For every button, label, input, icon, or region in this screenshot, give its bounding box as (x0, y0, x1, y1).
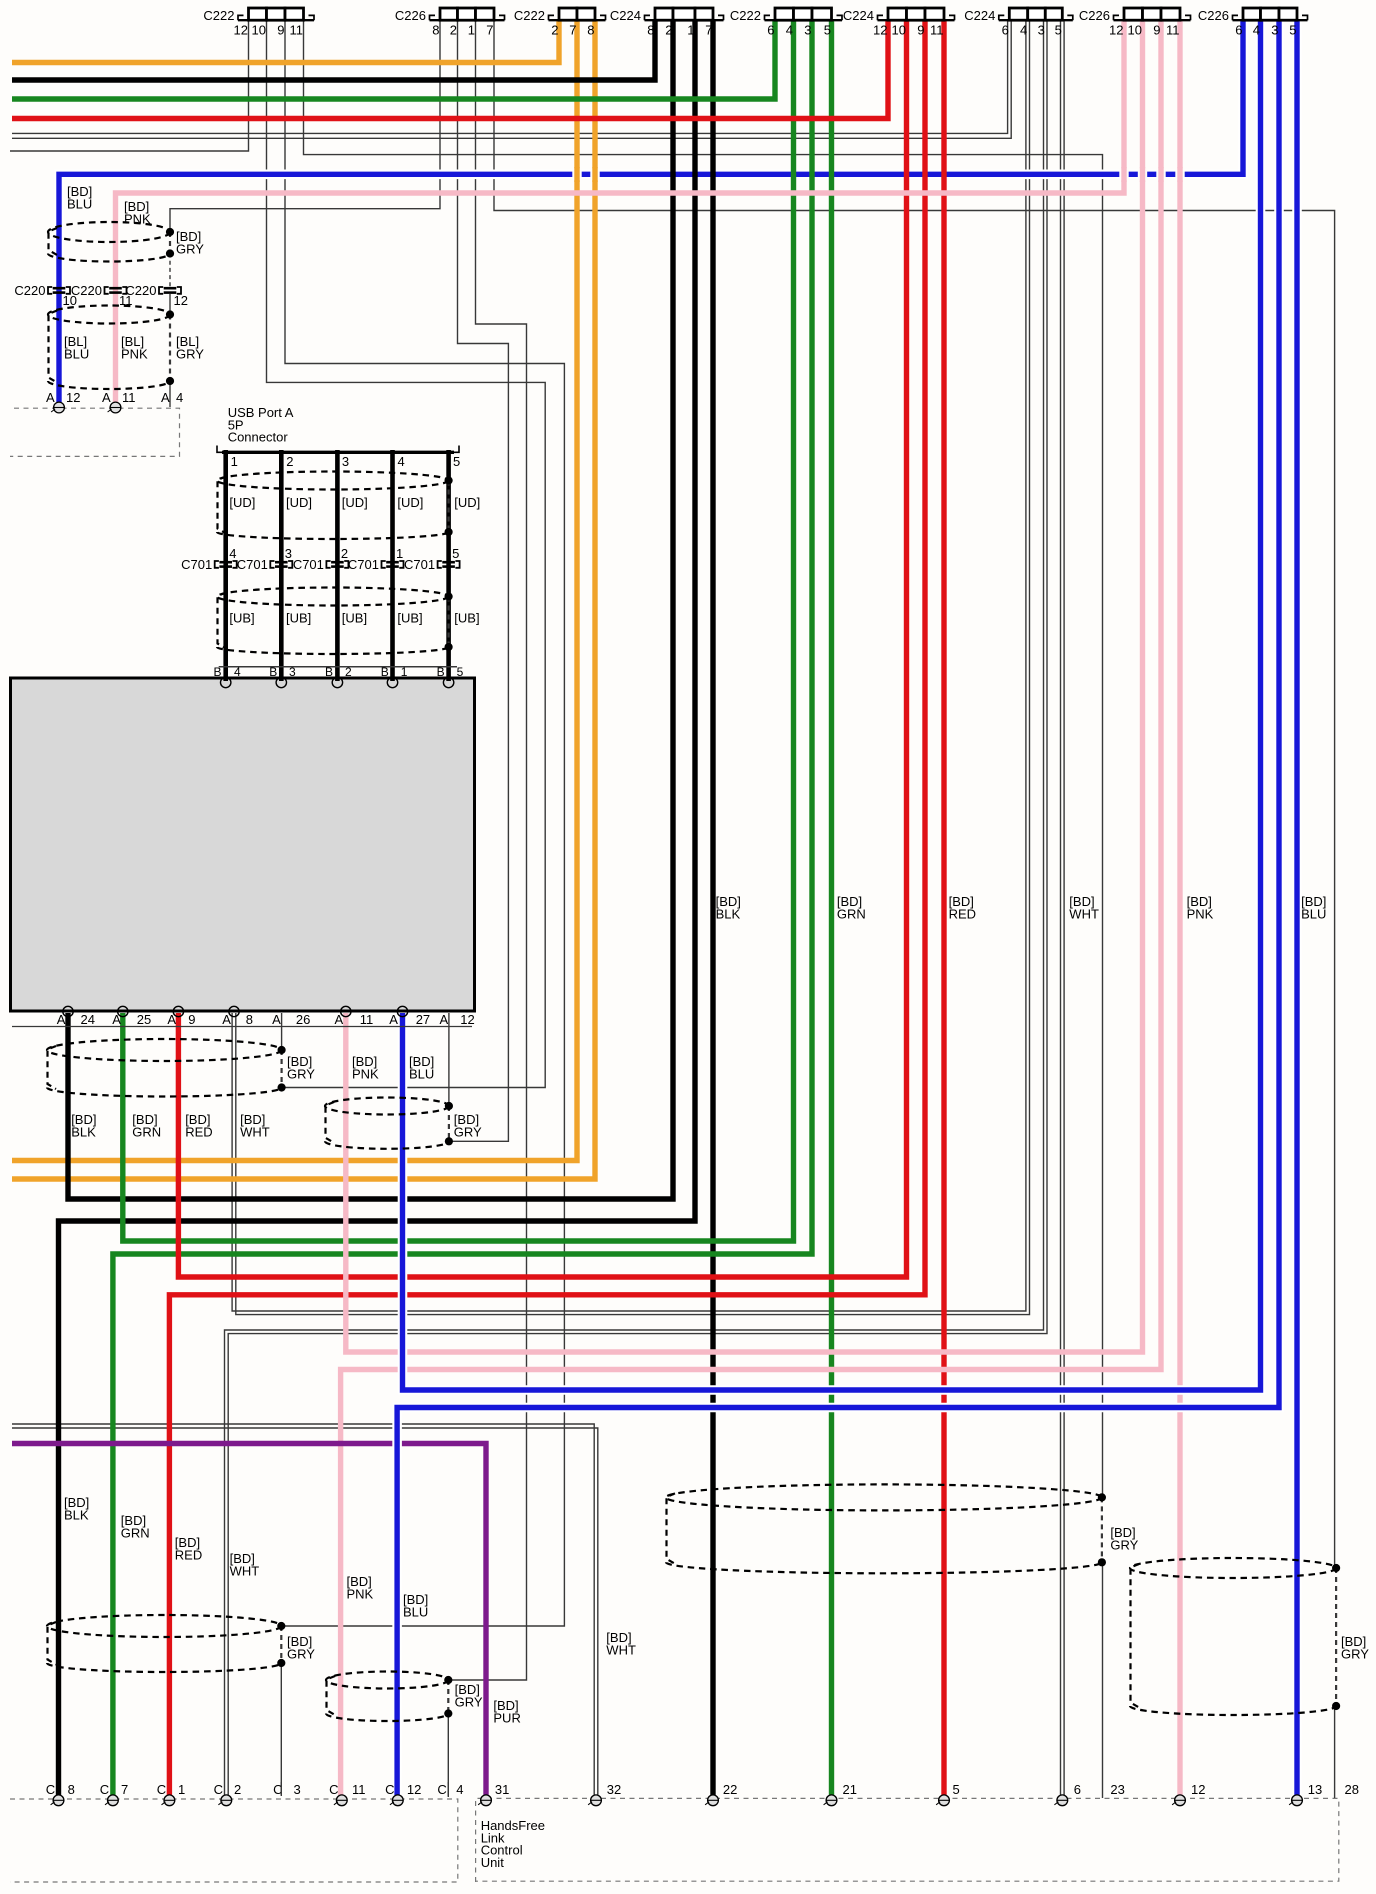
terminal circle 21 (826, 1795, 837, 1806)
svg-text:6: 6 (1074, 1782, 1081, 1797)
wire pair C224 pin3 to terminal C2 [BD] WHT (225, 20, 1044, 1795)
svg-text:C701: C701 (293, 557, 324, 572)
svg-text:27: 27 (416, 1012, 430, 1027)
wire [BD] PNK C226 pin12 to connector A11 (116, 20, 1125, 406)
connector C224 (pins 6,4,3,5) (999, 19, 1073, 21)
USB Port A pin 1 conductor (223, 450, 228, 681)
connector terminal circle A12 (54, 402, 65, 413)
svg-text:11: 11 (352, 1782, 366, 1797)
svg-text:C226: C226 (1198, 8, 1229, 23)
svg-text:BLU: BLU (403, 1604, 428, 1619)
svg-text:11: 11 (290, 23, 304, 38)
svg-text:RED: RED (175, 1547, 202, 1562)
svg-text:1: 1 (396, 546, 403, 561)
stub pin C3 (280, 1782, 282, 1796)
shield symbol [BL] cable (C220 side) (48, 306, 170, 324)
connector C701 pin 4 (219, 561, 232, 564)
svg-text:PNK: PNK (124, 211, 151, 226)
terminal circle C8 (53, 1795, 64, 1806)
wire C226 pin7 to terminal 28 (494, 20, 1335, 1568)
connector C226 (pins 8,2,1,7) (430, 19, 505, 21)
stub pin C4 (447, 1782, 449, 1796)
svg-text:[UD]: [UD] (454, 495, 480, 510)
shield symbol lower-middle C11-C12 bundle (326, 1672, 448, 1689)
svg-text:7: 7 (569, 23, 576, 38)
svg-text:13: 13 (1308, 1782, 1322, 1797)
svg-text:9: 9 (917, 23, 924, 38)
svg-text:4: 4 (176, 390, 183, 405)
wire [BD] ORN C222 pin7 to left edge (12, 20, 577, 1161)
svg-text:12: 12 (407, 1782, 421, 1797)
svg-text:3: 3 (804, 23, 811, 38)
svg-text:12: 12 (1109, 23, 1123, 38)
USB Port A pin 3 conductor (335, 450, 340, 681)
wire C222 pin12 to left edge (10, 20, 249, 151)
svg-text:6: 6 (1235, 23, 1242, 38)
svg-text:[UD]: [UD] (286, 495, 312, 510)
wire pair terminal 32 to left edge [BD] WHT (12, 1424, 594, 1795)
svg-text:4: 4 (234, 665, 241, 679)
svg-text:1: 1 (231, 454, 238, 469)
wire [BD] BLU C226 pin6 to connector A12 (59, 20, 1243, 406)
svg-text:C224: C224 (610, 8, 641, 23)
svg-text:4: 4 (456, 1782, 463, 1797)
wire [BD] BLK C224 pin1 to terminal C8 (59, 20, 696, 1795)
svg-text:C: C (46, 1782, 55, 1797)
wire pair C224 pin5 to terminal 6 [BD] WHT (1060, 20, 1062, 1795)
svg-text:GRN: GRN (132, 1124, 161, 1139)
svg-text:C226: C226 (395, 8, 426, 23)
wire [BD] PNK C226 pin11 to terminal 12 (1177, 20, 1182, 1795)
svg-text:BLK: BLK (716, 906, 741, 921)
shield symbol [UD] USB data pair (217, 472, 449, 490)
svg-text:1: 1 (178, 1782, 185, 1797)
wire [BD] ORN C222 pin8 to left edge (12, 20, 595, 1179)
wire [BD] BLK C224 pin2 to unit pin A24 (68, 20, 673, 1199)
svg-text:23: 23 (1110, 1782, 1124, 1797)
connector terminal circle A11 (110, 402, 121, 413)
svg-text:9: 9 (277, 23, 284, 38)
svg-text:6: 6 (1002, 23, 1009, 38)
svg-text:6: 6 (767, 23, 774, 38)
svg-text:RED: RED (949, 906, 976, 921)
svg-text:A: A (57, 1012, 66, 1027)
svg-text:BLU: BLU (1301, 906, 1326, 921)
wire terminal 28 lower segment (1334, 1706, 1336, 1798)
svg-text:24: 24 (81, 1012, 95, 1027)
svg-text:PNK: PNK (352, 1066, 379, 1081)
svg-text:11: 11 (122, 390, 136, 405)
junction dot shield GRY upper (166, 228, 174, 236)
svg-text:C701: C701 (237, 557, 268, 572)
svg-text:C222: C222 (203, 8, 234, 23)
connector C222 (pins 12,10,9,11) (238, 19, 314, 21)
svg-text:A: A (272, 1012, 281, 1027)
svg-text:2: 2 (450, 23, 457, 38)
wire pair C224 pin4 to unit pin A8 [BD] WHT (232, 20, 1026, 1311)
wire [BD] BLU C226 pin4 to unit pin A27 (403, 20, 1261, 1390)
svg-text:GRY: GRY (176, 346, 204, 361)
svg-text:3: 3 (1038, 23, 1045, 38)
terminal circle 22 (708, 1795, 719, 1806)
dashed boundary of HandsFree Link Control Unit (476, 1798, 1339, 1882)
svg-text:12: 12 (174, 293, 188, 308)
shield symbol lower-right 22-6 bundle (666, 1484, 1102, 1510)
svg-text:C222: C222 (514, 8, 545, 23)
wire C226 pin2 to shield dot A12 (451, 20, 508, 1141)
svg-text:BLK: BLK (64, 1507, 89, 1522)
svg-text:[UD]: [UD] (229, 495, 255, 510)
svg-text:BLU: BLU (409, 1066, 434, 1081)
connector C701 pin 2 (331, 561, 344, 564)
wire unit pin A12 shield drain (448, 1013, 450, 1106)
terminal circle 32 (591, 1795, 602, 1806)
svg-text:4: 4 (229, 546, 236, 561)
wire C226 pin1 to lower-middle shield dot (451, 20, 527, 1680)
svg-text:8: 8 (587, 23, 594, 38)
svg-text:4: 4 (786, 23, 793, 38)
svg-text:GRY: GRY (1110, 1537, 1138, 1552)
svg-text:[UB]: [UB] (286, 611, 311, 626)
svg-text:21: 21 (843, 1782, 857, 1797)
svg-text:A: A (102, 390, 111, 405)
USB Port A pin 5 conductor (446, 450, 451, 681)
svg-text:3: 3 (289, 665, 296, 679)
wire shield drain to terminal C4 (447, 1714, 449, 1798)
wire [BD] PUR left edge to terminal 31 (12, 1444, 486, 1796)
svg-text:1: 1 (687, 23, 694, 38)
svg-text:3: 3 (1271, 23, 1278, 38)
svg-text:2: 2 (665, 23, 672, 38)
svg-text:26: 26 (296, 1012, 310, 1027)
svg-text:7: 7 (486, 23, 493, 38)
svg-text:4: 4 (1253, 23, 1260, 38)
junction dot UB pair (445, 592, 453, 600)
USB Port A pin 4 conductor (390, 450, 395, 681)
svg-text:GRY: GRY (176, 241, 204, 256)
svg-text:A: A (161, 390, 170, 405)
svg-text:8: 8 (68, 1782, 75, 1797)
svg-text:A: A (46, 390, 55, 405)
svg-text:C: C (157, 1782, 166, 1797)
svg-text:GRY: GRY (455, 1694, 483, 1709)
svg-text:22: 22 (723, 1782, 737, 1797)
svg-text:9: 9 (188, 1012, 195, 1027)
svg-text:2: 2 (551, 23, 558, 38)
svg-text:9: 9 (1153, 23, 1160, 38)
svg-text:GRY: GRY (287, 1646, 315, 1661)
svg-text:5: 5 (453, 454, 460, 469)
svg-text:2: 2 (345, 665, 352, 679)
wire [BD] GRN C222 pin4 to unit pin A25 (123, 20, 794, 1241)
wire crossing gaps on blue run (572, 168, 581, 180)
wire [BD] BLU C226 pin5 to terminal 13 (1292, 20, 1302, 1795)
wire [BD] BLK C224 pin7 to terminal 22 (710, 20, 715, 1795)
terminal circle 31 (481, 1795, 492, 1806)
wire [BD] BLK C224 pin8 to left edge (12, 20, 655, 80)
svg-text:2: 2 (234, 1782, 241, 1797)
wire [BD] RED C224 pin9 to terminal C1 (169, 20, 925, 1795)
svg-text:GRN: GRN (121, 1525, 150, 1540)
connector C701 pin 3 (275, 561, 288, 564)
wire C222 pin11 to terminal 23 (304, 20, 1103, 1497)
unit A-pin row bar (12, 1026, 472, 1028)
connector C701 pin 5 (442, 561, 455, 564)
terminal circle C1 (164, 1795, 175, 1806)
connector C220 pin10 (53, 287, 66, 290)
wire [BD] RED C224 pin11 to terminal 5 (941, 20, 946, 1795)
terminal circle C2 (221, 1795, 232, 1806)
svg-text:PNK: PNK (121, 346, 148, 361)
svg-text:8: 8 (432, 23, 439, 38)
connector C224 (pins 12,10,9,11) (878, 19, 955, 21)
junction dot shield A12 (445, 1102, 453, 1110)
unit socket circles B4-B5 (221, 677, 231, 687)
svg-text:[UB]: [UB] (454, 611, 479, 626)
svg-text:8: 8 (246, 1012, 253, 1027)
svg-text:Connector: Connector (228, 430, 289, 445)
svg-text:11: 11 (930, 23, 944, 38)
svg-text:PNK: PNK (1187, 906, 1214, 921)
shield symbol [UB] USB data pair (217, 588, 449, 606)
terminal circle 13 (1292, 1795, 1303, 1806)
unit socket circles A24-A27 (63, 1006, 73, 1016)
shield symbol [BD] GRY upper-left twisted pair (48, 222, 170, 242)
svg-text:A: A (389, 1012, 398, 1027)
svg-text:C226: C226 (1079, 8, 1110, 23)
USB hub control unit (gray box) (11, 678, 475, 1011)
svg-text:WHT: WHT (240, 1124, 270, 1139)
wire shield drain to terminal C3 (280, 1663, 282, 1795)
svg-text:B: B (214, 665, 222, 679)
svg-text:GRN: GRN (837, 906, 866, 921)
connector C226 (pins 12,10,9,11) (1114, 19, 1191, 21)
svg-text:7: 7 (705, 23, 712, 38)
junction dot shield C3 (277, 1622, 285, 1630)
svg-text:C701: C701 (181, 557, 212, 572)
svg-text:RED: RED (185, 1124, 212, 1139)
connector C226 (pins 6,4,3,5) (1233, 19, 1308, 21)
svg-text:[UB]: [UB] (342, 611, 367, 626)
junction dot shield 23 (1098, 1493, 1106, 1501)
shield symbol lower-right 12-13 bundle (1130, 1558, 1336, 1578)
wire [BD] GRN C222 pin6 to left edge (12, 20, 775, 99)
svg-text:28: 28 (1345, 1782, 1359, 1797)
svg-text:3: 3 (294, 1782, 301, 1797)
svg-text:WHT: WHT (230, 1563, 260, 1578)
wire [BL] GRY pin lead above C220 (169, 254, 171, 288)
svg-text:5: 5 (1055, 23, 1062, 38)
svg-text:A: A (222, 1012, 231, 1027)
svg-text:A: A (112, 1012, 121, 1027)
junction dot shield A26 (278, 1046, 286, 1054)
dashed boundary of lower-left unit (10, 1799, 458, 1882)
svg-text:5: 5 (452, 546, 459, 561)
terminal circle C11 (336, 1795, 347, 1806)
svg-text:[UB]: [UB] (397, 611, 422, 626)
svg-text:PUR: PUR (493, 1710, 520, 1725)
svg-text:10: 10 (892, 23, 906, 38)
wire terminal 23 lower segment (1102, 1562, 1104, 1798)
connector C220 pin11 (109, 287, 122, 290)
wire [BD] PNK C226 pin10 to unit pin A11 (346, 20, 1143, 1352)
svg-text:4: 4 (398, 454, 405, 469)
svg-text:C701: C701 (404, 557, 435, 572)
svg-text:BLU: BLU (67, 196, 92, 211)
wire [BL] GRY pin lead below C220 (169, 294, 171, 315)
svg-text:Unit: Unit (481, 1855, 505, 1870)
svg-text:12: 12 (460, 1012, 474, 1027)
wire C222 pin10 to shield drain dot A26 (267, 20, 546, 1088)
svg-text:12: 12 (234, 23, 248, 38)
svg-text:32: 32 (607, 1782, 621, 1797)
svg-text:C222: C222 (730, 8, 761, 23)
svg-text:A: A (335, 1012, 344, 1027)
svg-text:C224: C224 (843, 8, 874, 23)
wire pair C224 pin6 to left edge [BD] WHT (12, 20, 1008, 133)
svg-text:10: 10 (1128, 23, 1142, 38)
wire [BD] RED C224 pin12 to left edge (12, 20, 888, 119)
svg-text:WHT: WHT (606, 1642, 636, 1657)
wire C222 pin9 to lower-left shield dot (284, 20, 564, 1626)
svg-text:10: 10 (252, 23, 266, 38)
junction dot shield 28 (1332, 1564, 1340, 1572)
wire [BD] GRN C222 pin5 to terminal 21 (829, 20, 834, 1795)
wire [BD] BLU C226 pin3 to terminal C12 (397, 20, 1279, 1795)
svg-text:11: 11 (360, 1012, 374, 1027)
svg-text:C220: C220 (125, 283, 156, 298)
terminal circle 5 (939, 1795, 950, 1806)
dashed boundary of upper-left unit (C220 side) (10, 408, 180, 456)
svg-text:C220: C220 (14, 283, 45, 298)
svg-text:[UB]: [UB] (229, 611, 254, 626)
svg-text:7: 7 (121, 1782, 128, 1797)
svg-text:1: 1 (401, 665, 408, 679)
svg-text:B: B (437, 665, 445, 679)
svg-text:C220: C220 (71, 283, 102, 298)
wire [BD] RED C224 pin10 to unit pin A9 (178, 20, 906, 1277)
svg-text:12: 12 (66, 390, 80, 405)
terminal circle C7 (108, 1795, 119, 1806)
svg-text:B: B (325, 665, 333, 679)
svg-text:3: 3 (285, 546, 292, 561)
svg-text:C: C (100, 1782, 109, 1797)
wire [BD] PNK C226 pin9 to terminal C11 (341, 20, 1161, 1795)
connector C222 (pins 2,7,8) (549, 19, 606, 21)
terminal circle 6 (1057, 1795, 1068, 1806)
svg-text:WHT: WHT (1069, 906, 1099, 921)
junction dot shield C4 (444, 1676, 452, 1684)
svg-text:2: 2 (286, 454, 293, 469)
svg-text:5: 5 (1289, 23, 1296, 38)
svg-text:PNK: PNK (347, 1586, 374, 1601)
svg-text:A: A (440, 1012, 449, 1027)
svg-text:12: 12 (873, 23, 887, 38)
shield symbol lower-left C8-C2 bundle (47, 1615, 281, 1637)
connector C220 pin12 (164, 287, 177, 290)
svg-text:GRY: GRY (454, 1124, 482, 1139)
terminal circle 12 (1175, 1795, 1186, 1806)
connector C222 (pins 6,4,3,5) (765, 19, 843, 21)
junction dot UD pair (445, 476, 453, 484)
svg-text:GRY: GRY (287, 1066, 315, 1081)
junction dot shield BL (166, 310, 174, 318)
USB B-pin row bar (219, 666, 457, 668)
terminal circle C12 (392, 1795, 403, 1806)
svg-text:3: 3 (342, 454, 349, 469)
svg-text:C224: C224 (964, 8, 995, 23)
svg-text:5: 5 (953, 1782, 960, 1797)
wire unit pin A26 shield drain (281, 1013, 283, 1050)
svg-text:1: 1 (468, 23, 475, 38)
svg-text:C: C (437, 1782, 446, 1797)
svg-text:C: C (329, 1782, 338, 1797)
svg-text:25: 25 (137, 1012, 151, 1027)
USB Port A connector top rail (217, 446, 459, 453)
svg-text:8: 8 (647, 23, 654, 38)
svg-text:B: B (269, 665, 277, 679)
svg-text:GRY: GRY (1341, 1646, 1369, 1661)
svg-text:C: C (214, 1782, 223, 1797)
svg-text:12: 12 (1191, 1782, 1205, 1797)
connector C224 (pins 8,2,1,7) (645, 19, 724, 21)
shield symbol below unit pins A11-A27 (325, 1098, 449, 1115)
svg-text:31: 31 (495, 1782, 509, 1797)
svg-text:BLU: BLU (64, 346, 89, 361)
svg-text:5: 5 (457, 665, 464, 679)
svg-text:5: 5 (824, 23, 831, 38)
svg-text:4: 4 (1020, 23, 1027, 38)
wire C226 pin8 to shield GRY dot (170, 20, 440, 232)
USB Port A pin 2 conductor (279, 450, 284, 681)
svg-text:[UD]: [UD] (342, 495, 368, 510)
svg-text:[UD]: [UD] (397, 495, 423, 510)
wire [BL] GRY lead to A4 (169, 381, 171, 407)
svg-text:11: 11 (1166, 23, 1180, 38)
svg-text:A: A (167, 1012, 176, 1027)
connector C701 pin 1 (386, 561, 399, 564)
svg-text:B: B (381, 665, 389, 679)
shield symbol below unit pins A24-A8 (47, 1039, 282, 1061)
svg-text:BLK: BLK (71, 1124, 96, 1139)
svg-text:C: C (385, 1782, 394, 1797)
svg-text:C701: C701 (348, 557, 379, 572)
wire [BD] ORN C222 pin2 to left edge (12, 20, 559, 63)
wire [BD] GRN C222 pin3 to terminal C7 (113, 20, 812, 1795)
